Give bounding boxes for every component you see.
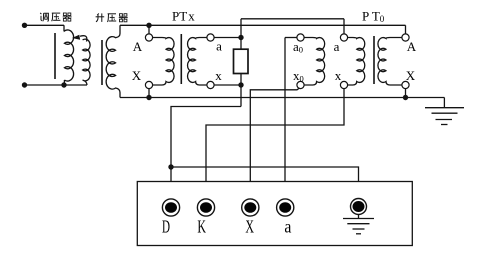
node: input terminal bottom (dot) — [22, 82, 27, 87]
PTx terminal a — [207, 34, 214, 41]
wire: input top to variac — [25, 24, 65, 26]
svg-text:X: X — [245, 216, 254, 236]
svg-text:PTx: PTx — [172, 9, 195, 24]
binding post D — [162, 199, 179, 216]
svg-text:A: A — [133, 39, 143, 54]
junction: PTx x node — [238, 82, 243, 87]
PT0 terminal a riser — [343, 19, 345, 34]
wire: PTx a to resistor node — [214, 37, 241, 39]
wire: PTx x to resistor bottom node — [214, 84, 241, 86]
variac slider arrow tail — [80, 36, 87, 42]
wire: input bottom feeder — [25, 84, 88, 86]
wire: a0 drop to terminal a — [284, 38, 286, 199]
wire: bus to earth — [443, 98, 445, 108]
label 升压器 (step-up transformer) — [97, 13, 99, 15]
wire: PT0 x to K — [206, 89, 344, 199]
wire: variac bottom to feeder — [63, 80, 65, 85]
svg-text:a: a — [284, 216, 291, 236]
resistor R (burden) — [234, 49, 249, 73]
binding post ground — [351, 199, 367, 215]
junction: PTx a node — [238, 35, 243, 40]
wire: D to case-ground link — [171, 167, 359, 198]
booster primary winding — [83, 39, 91, 85]
svg-text:x: x — [215, 68, 222, 83]
PTx secondary winding — [188, 38, 207, 86]
svg-text:X: X — [132, 68, 142, 83]
PT0 terminal x — [340, 81, 347, 88]
junction: PTx X on bus — [146, 95, 151, 100]
PT0 secondary winding — [348, 38, 365, 86]
PTx terminal X drop — [148, 89, 150, 98]
PT0 primary winding — [378, 38, 402, 86]
svg-text:A: A — [407, 39, 417, 54]
PT0 terminal x0 — [297, 81, 304, 88]
PT0 terminal a0 — [297, 34, 304, 41]
PTx core bar — [180, 34, 182, 84]
PT0 auxiliary winding — [304, 38, 325, 86]
PTx terminal A riser — [148, 25, 150, 34]
PTx terminal x — [207, 81, 214, 88]
wire: x0 to terminal X — [250, 88, 299, 199]
binding post X — [242, 199, 259, 216]
node: input terminal top (dot) — [22, 23, 27, 28]
wire: HV bus — [120, 24, 406, 26]
wire: resistor branch lower — [240, 74, 242, 107]
ground (instrument case) — [358, 215, 360, 219]
junction: variac bottom — [61, 82, 66, 87]
PTx terminal X — [145, 81, 152, 88]
svg-text:a: a — [216, 39, 222, 54]
svg-text:X: X — [406, 68, 416, 83]
binding post K — [197, 199, 214, 216]
booster core bar — [101, 40, 103, 85]
wire: resistor branch upper — [240, 19, 242, 49]
voltage-regulator core bar — [54, 33, 56, 79]
ground (HV return earth) — [425, 107, 464, 109]
wire: x-net to D — [171, 107, 241, 199]
variac slider arrow head — [72, 35, 80, 40]
svg-text:K: K — [197, 216, 206, 236]
PT0 terminal A — [402, 34, 409, 41]
PT0 terminal a — [340, 34, 347, 41]
PT0 terminal A riser — [405, 25, 407, 34]
booster secondary winding — [106, 25, 120, 97]
PT0 terminal X drop — [405, 89, 407, 98]
junction: PT0 X on bus — [403, 95, 408, 100]
svg-text:x: x — [335, 68, 342, 83]
PT0 core bar — [373, 36, 375, 84]
voltage-regulator winding — [64, 25, 74, 81]
wire: upper link PTx-a to PT0-a — [241, 18, 344, 20]
PTx terminal A — [145, 34, 152, 41]
svg-text:D: D — [162, 216, 170, 236]
PT0 winding a0 lead — [285, 37, 297, 39]
PT0 terminal X — [402, 81, 409, 88]
PTx primary winding — [153, 38, 174, 86]
svg-text:a: a — [334, 39, 340, 54]
label 调压器 (voltage regulator) — [40, 13, 41, 14]
junction: D to ground link — [168, 164, 173, 169]
junction: HV bus to PTx A — [146, 23, 151, 28]
instrument box — [137, 182, 412, 246]
binding post a — [277, 199, 294, 216]
wire: grounded X bus — [120, 97, 444, 99]
